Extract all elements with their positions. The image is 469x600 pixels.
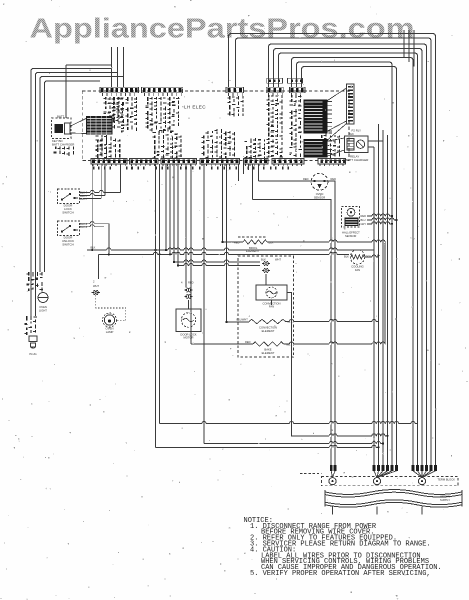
svg-text:BLK: BLK [349, 132, 354, 136]
svg-text:5. VERIFY PROPER OPERATION AFT: 5. VERIFY PROPER OPERATION AFTER SERVICI… [250, 570, 431, 578]
svg-text:FAN: FAN [269, 305, 274, 309]
svg-text:LAMP: LAMP [106, 330, 114, 334]
svg-text:P2 RLY: P2 RLY [352, 129, 362, 133]
svg-text:RED: RED [245, 340, 251, 344]
svg-text:RED: RED [331, 177, 337, 181]
svg-text:BATT: BATT [57, 114, 64, 118]
svg-text:BAKE: BAKE [264, 348, 271, 352]
svg-text:SWITCH: SWITCH [62, 243, 73, 247]
svg-text:BLU/WHT: BLU/WHT [237, 319, 249, 322]
svg-text:AppliancePartsPros.com: AppliancePartsPros.com [30, 12, 415, 43]
svg-text:MOTOR: MOTOR [184, 336, 194, 340]
svg-text:PLUG: PLUG [29, 352, 36, 356]
svg-text:WHT: WHT [93, 284, 99, 288]
svg-text:RED: RED [303, 177, 309, 181]
svg-text:RED: RED [234, 241, 240, 245]
svg-text:BATT CHARGER: BATT CHARGER [346, 158, 368, 162]
svg-text:SWITCH: SWITCH [62, 211, 73, 215]
svg-text:HALL EFFECT: HALL EFFECT [342, 230, 360, 234]
svg-text:OVEN: OVEN [316, 192, 324, 196]
svg-text:LH ELEC: LH ELEC [184, 105, 206, 110]
svg-text:LIGHT: LIGHT [39, 308, 47, 312]
svg-text:BLK: BLK [344, 255, 349, 259]
svg-text:SUPPLY: SUPPLY [440, 498, 450, 502]
svg-text:RED: RED [361, 214, 367, 218]
svg-text:BATT CHARGER: BATT CHARGER [52, 143, 74, 147]
svg-text:ELEMENT: ELEMENT [262, 329, 275, 333]
svg-text:GRY: GRY [361, 222, 367, 226]
svg-text:SENSOR: SENSOR [345, 234, 356, 238]
svg-text:BLK: BLK [91, 246, 96, 250]
svg-text:BLK: BLK [269, 241, 274, 245]
svg-text:BLU: BLU [361, 218, 366, 222]
svg-text:WHT: WHT [275, 258, 281, 262]
svg-text:RED: RED [188, 280, 194, 284]
svg-text:SENSOR: SENSOR [314, 195, 325, 199]
svg-text:TERM BLOCK: TERM BLOCK [438, 478, 456, 482]
svg-text:FAN: FAN [355, 268, 360, 272]
svg-text:ELEMENT: ELEMENT [262, 351, 275, 355]
svg-text:BLK: BLK [261, 258, 266, 262]
svg-text:ELEMENT: ELEMENT [246, 249, 260, 253]
